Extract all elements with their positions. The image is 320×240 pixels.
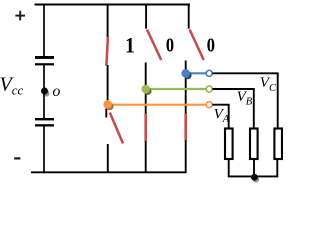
resistor R2 (250, 129, 258, 160)
svg-text:0: 0 (207, 34, 215, 56)
node VC blue net wire (186, 72, 207, 74)
wire S1 pole upper (107, 65, 109, 101)
wire S3 pole upper (185, 61, 187, 71)
switch S1 bottom contact wire (107, 144, 109, 172)
terminal VC open circle (206, 70, 212, 76)
terminal VB open circle (206, 86, 212, 92)
switch S3 top feed wire (188, 5, 190, 29)
wire S2 to bottom rail (145, 141, 147, 172)
wire VC to resistor R3 (212, 73, 277, 128)
battery cell upper plate top (35, 56, 54, 59)
battery cell upper plate bottom (35, 63, 54, 65)
node VA orange net wire (108, 104, 207, 106)
terminal VA open circle (206, 102, 212, 108)
wire left branch lower (43, 126, 45, 173)
node o junction dot (43, 90, 49, 96)
resistor R3 (274, 129, 282, 160)
switch S1 lever closed to Vcc (106, 37, 108, 66)
svg-text:o: o (52, 83, 60, 100)
wire between node o and lower cell (43, 92, 45, 118)
minus terminal label (14, 157, 20, 159)
wire R1 bottom (229, 160, 278, 177)
wire S3 pole lower (185, 77, 187, 114)
switch S3 lever closed to ground (184, 114, 187, 142)
wire R2 bottom (253, 160, 255, 177)
switch S2 top feed wire (145, 5, 147, 29)
switch S3 lever open from Vcc (190, 30, 204, 61)
resistor R1 (225, 129, 233, 160)
wire left branch upper (43, 5, 45, 57)
wire S3 to bottom rail (185, 141, 187, 174)
wire S2 pole lower (145, 92, 147, 114)
battery cell lower plate top (35, 118, 54, 120)
wire top rail (35, 4, 191, 6)
svg-text:0: 0 (166, 34, 174, 56)
switch S1 lever open from ground (110, 113, 123, 144)
wire between cell and node o (43, 65, 45, 92)
battery cell lower plate bottom (35, 124, 54, 126)
node VB pole dot (144, 87, 152, 95)
wire S2 pole upper (145, 63, 147, 87)
plus terminal label (15, 11, 25, 21)
wire VA to resistor R1 (212, 105, 228, 129)
node VA pole dot (106, 103, 114, 111)
switch S2 lever open from Vcc (147, 30, 161, 61)
summing junction dot (253, 176, 259, 182)
node VC pole dot (184, 72, 192, 80)
switch S1 top feed wire (107, 5, 109, 38)
node VB green net wire (146, 88, 207, 90)
wire VB to resistor R2 (212, 89, 253, 129)
wire bottom rail (31, 171, 186, 173)
svg-text:1: 1 (125, 33, 135, 58)
switch S2 lever closed to ground (144, 114, 147, 142)
switch S1 pole stub lower (105, 109, 107, 118)
